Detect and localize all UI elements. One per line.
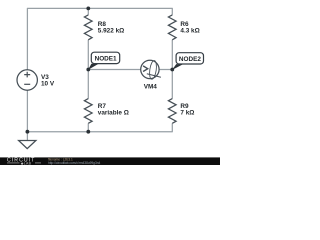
svg-text:5.922 kΩ: 5.922 kΩ [98, 28, 124, 35]
node label NODE2 [172, 53, 204, 70]
wire top horizontal with left drop to V3 [27, 8, 172, 70]
svg-text:http://circuitlab.com/c/rm438u: http://circuitlab.com/c/rm438u99g3n4 [48, 161, 100, 165]
wire NODE1 junction to voltmeter left [88, 69, 141, 71]
resistor R9 [168, 99, 194, 124]
wire R8 bottom to NODE1 junction [87, 40, 89, 70]
svg-text:10 V: 10 V [41, 81, 55, 88]
wire R8 branch top stub [87, 8, 89, 15]
svg-text:NODE2: NODE2 [179, 56, 201, 63]
junction dot ground tee [26, 130, 30, 134]
wire bottom horizontal with right rise to R9 [27, 123, 172, 131]
resistor R6 [168, 15, 199, 40]
wire R6 bottom to NODE2 junction [171, 40, 173, 70]
wire voltmeter right to NODE2 junction [159, 69, 172, 71]
voltage source V3 [17, 70, 55, 90]
resistor R7 [84, 99, 128, 124]
svg-text:7 kΩ: 7 kΩ [180, 110, 194, 117]
node label NODE1 [88, 52, 120, 70]
wire NODE1 junction down to R7 [87, 70, 89, 99]
svg-text:4.3 kΩ: 4.3 kΩ [180, 28, 199, 35]
ground [19, 141, 36, 149]
svg-text:◆LAB: ◆LAB [21, 161, 32, 165]
junction dot NODE1 [86, 68, 90, 72]
svg-text:variable Ω: variable Ω [98, 110, 129, 117]
wire ground stub [26, 132, 28, 141]
watermark bar [0, 157, 220, 165]
junction dot top tee [86, 6, 90, 10]
resistor R8 [84, 15, 124, 40]
svg-text:VM4: VM4 [144, 83, 158, 90]
voltmeter VM4 [141, 60, 161, 90]
junction dot NODE2 [170, 68, 174, 72]
svg-text:NODE1: NODE1 [95, 56, 117, 63]
wire V3 bottom to ground junction [26, 90, 28, 132]
junction dot bottom tee [86, 130, 90, 134]
wire R7 bottom stub [87, 123, 89, 131]
wire NODE2 junction down to R9 [171, 70, 173, 99]
